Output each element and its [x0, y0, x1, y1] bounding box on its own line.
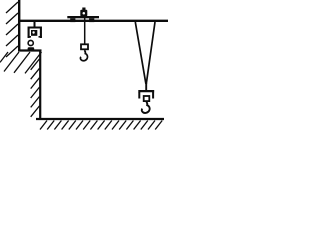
hook B	[80, 50, 87, 60]
hanger rod C	[145, 83, 147, 91]
wall lower hatching	[31, 59, 40, 117]
fixed hanger stub A	[34, 22, 36, 27]
ledge hatching	[0, 52, 42, 73]
crossbar C	[138, 90, 154, 92]
hook A foot	[28, 47, 35, 51]
bracket arm C right	[152, 92, 154, 99]
pulley housing C	[144, 96, 150, 101]
pulley bracket A feet	[28, 36, 42, 38]
trolley top pulley	[80, 8, 87, 17]
floor hatching	[40, 121, 162, 130]
bracket arm C left	[138, 92, 140, 99]
hook C	[142, 102, 150, 113]
rope sling left fall	[135, 22, 146, 84]
ledge edge	[18, 49, 42, 51]
wall upper hatching	[6, 2, 18, 57]
wall upper edge	[18, 0, 20, 52]
rope sling right fall	[146, 22, 155, 84]
beam	[19, 20, 168, 22]
wall lower edge	[39, 51, 41, 120]
pulley A	[31, 30, 37, 36]
floor edge	[36, 118, 164, 120]
pulley bracket A	[29, 28, 41, 39]
hanger rod B	[84, 18, 86, 44]
pulley housing B	[81, 44, 88, 49]
trolley wheel left	[70, 18, 75, 22]
hook A ring	[28, 40, 33, 45]
trolley wheel right	[89, 18, 94, 22]
trolley bar	[67, 16, 99, 18]
